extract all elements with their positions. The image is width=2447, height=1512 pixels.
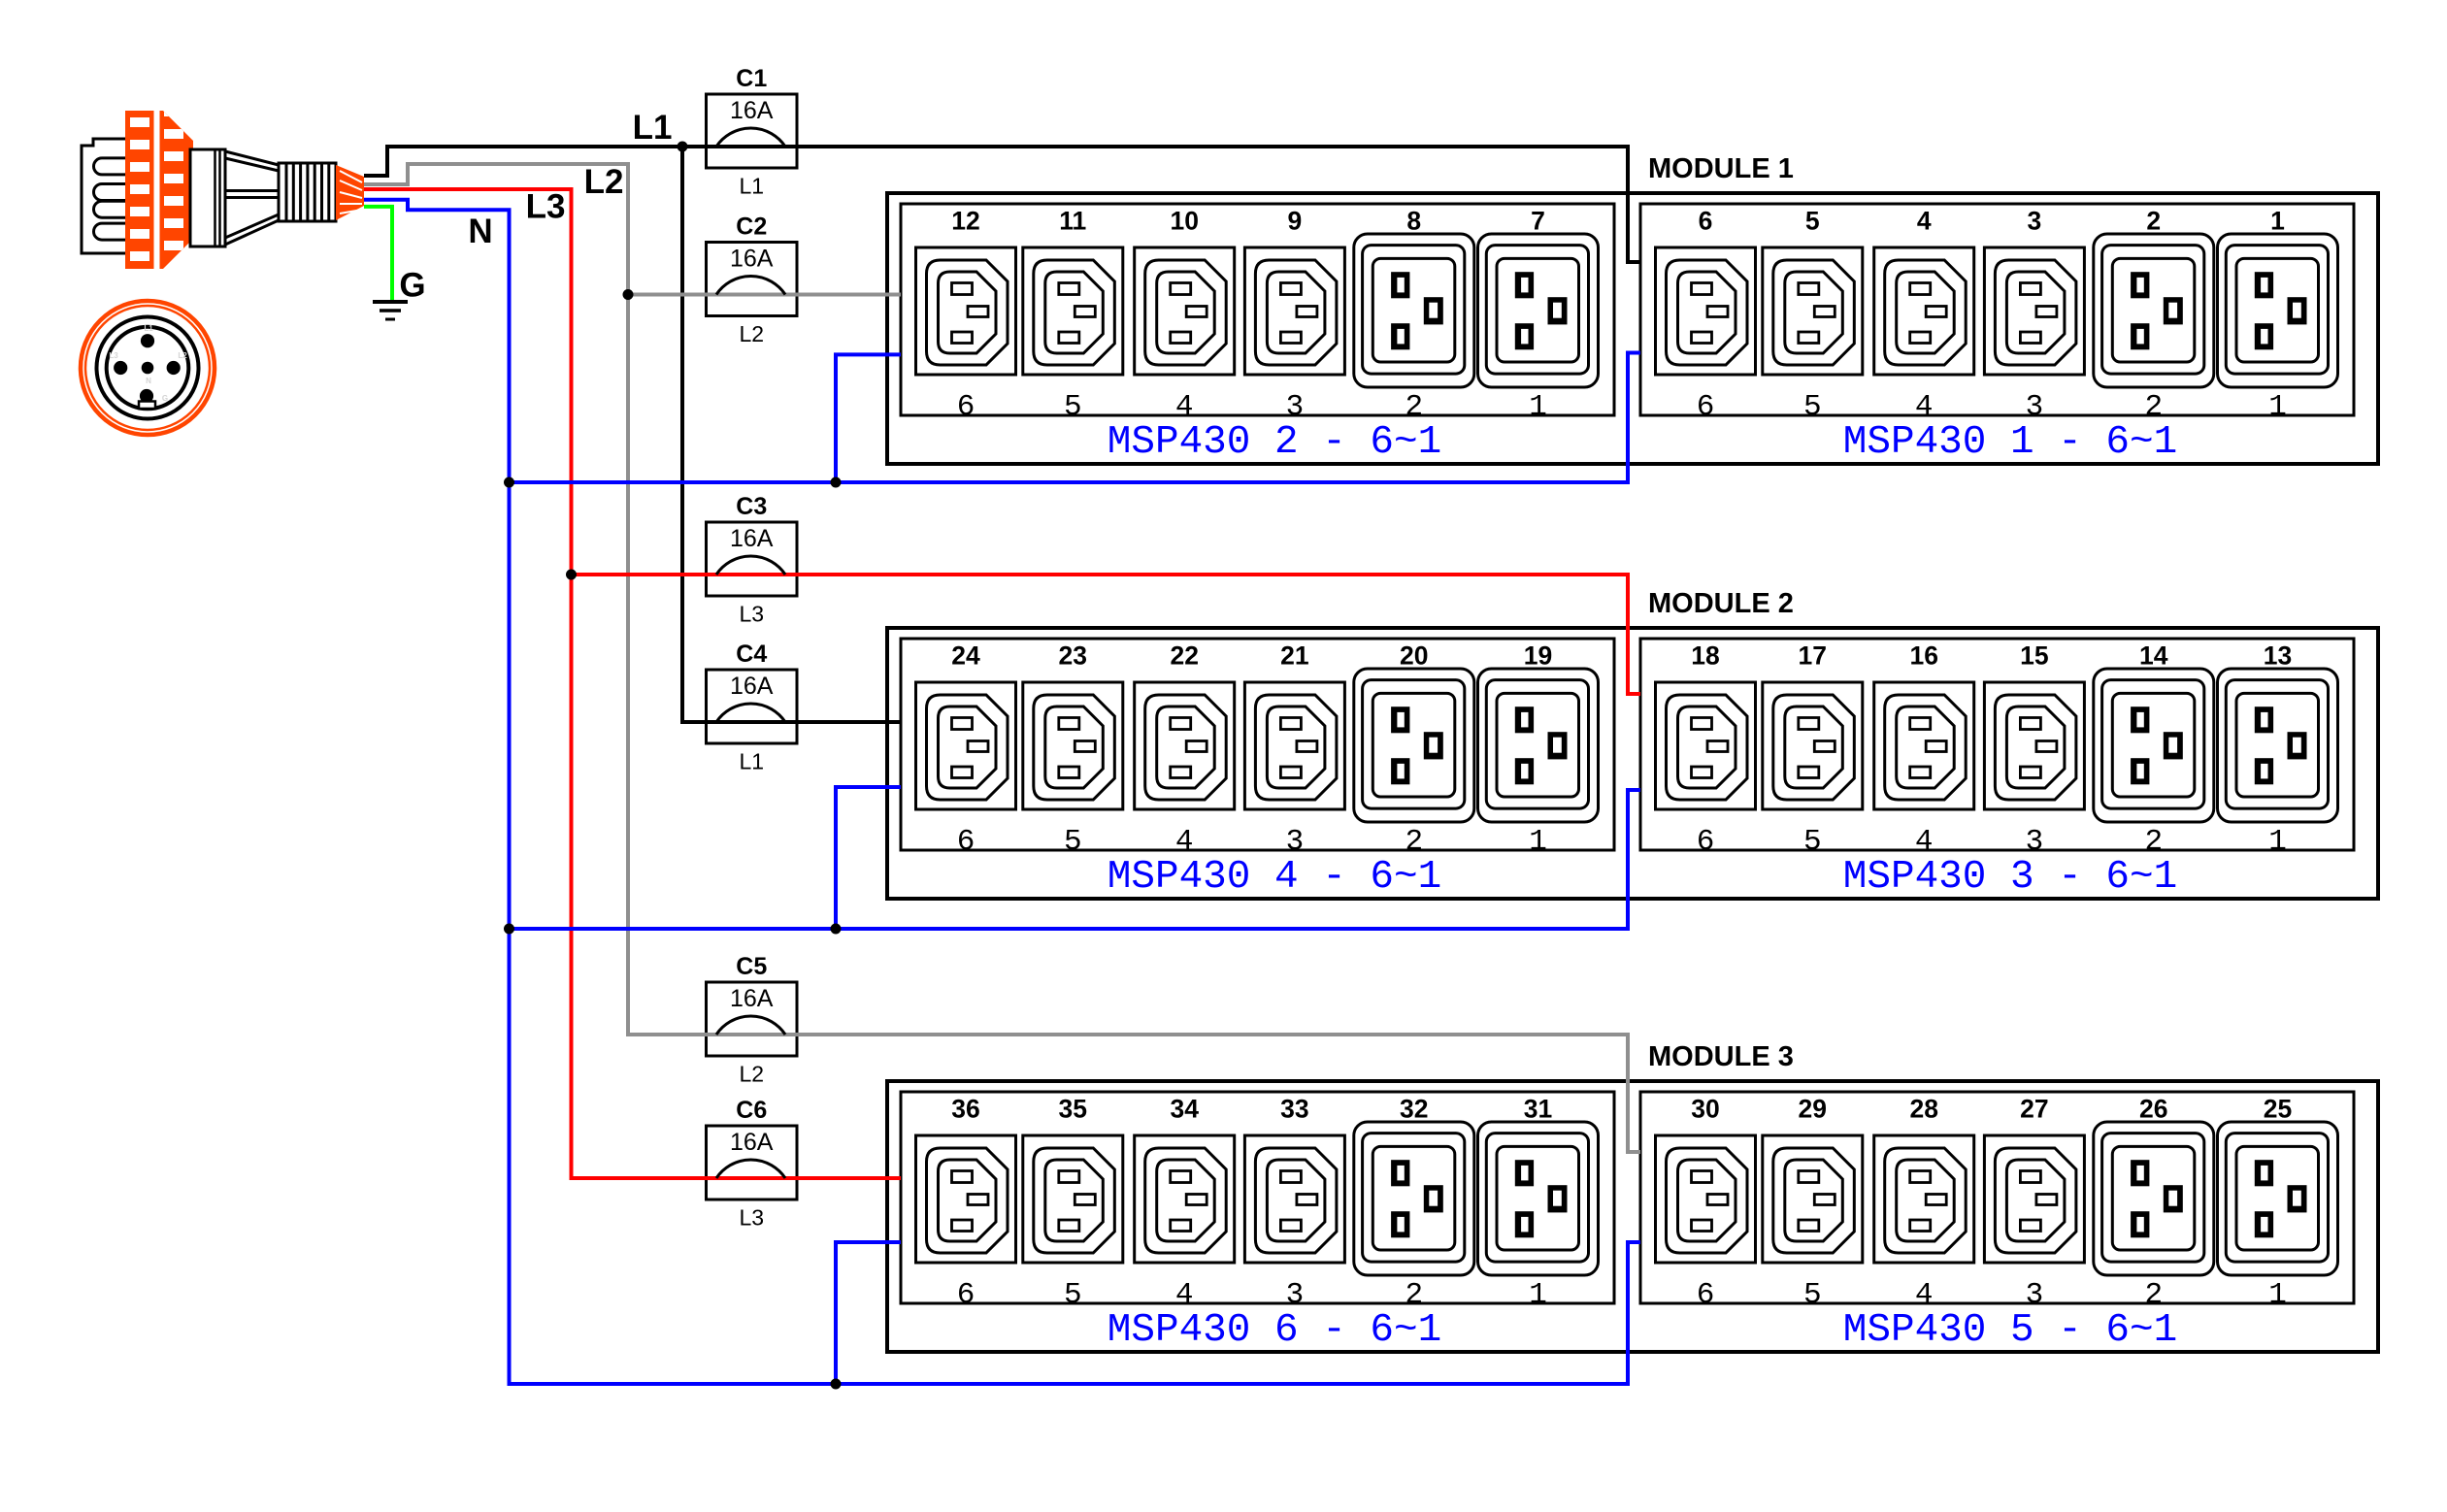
svg-text:N: N bbox=[146, 377, 151, 385]
svg-text:L1: L1 bbox=[739, 174, 764, 199]
svg-text:33: 33 bbox=[1280, 1095, 1308, 1124]
svg-text:L3: L3 bbox=[109, 351, 118, 360]
svg-text:N: N bbox=[468, 213, 492, 250]
svg-text:4: 4 bbox=[1915, 825, 1934, 859]
svg-text:4: 4 bbox=[1175, 1278, 1194, 1312]
svg-text:17: 17 bbox=[1799, 641, 1827, 671]
svg-text:C3: C3 bbox=[736, 493, 767, 520]
svg-text:MSP430 4 - 6~1: MSP430 4 - 6~1 bbox=[1108, 855, 1441, 900]
svg-text:3: 3 bbox=[2026, 825, 2044, 859]
svg-text:5: 5 bbox=[1803, 825, 1822, 859]
svg-text:MSP430 6 - 6~1: MSP430 6 - 6~1 bbox=[1108, 1308, 1441, 1353]
svg-text:7: 7 bbox=[1531, 207, 1545, 236]
svg-text:30: 30 bbox=[1691, 1095, 1719, 1124]
svg-text:MSP430 3 - 6~1: MSP430 3 - 6~1 bbox=[1843, 855, 2177, 900]
svg-text:2: 2 bbox=[2146, 207, 2161, 236]
svg-text:34: 34 bbox=[1170, 1095, 1199, 1124]
svg-text:6: 6 bbox=[957, 825, 975, 859]
svg-text:31: 31 bbox=[1524, 1095, 1552, 1124]
svg-text:2: 2 bbox=[1405, 1278, 1423, 1312]
svg-text:MODULE 1: MODULE 1 bbox=[1648, 153, 1794, 184]
svg-text:1: 1 bbox=[2268, 825, 2287, 859]
svg-text:4: 4 bbox=[1917, 207, 1932, 236]
svg-text:12: 12 bbox=[951, 207, 979, 236]
svg-text:MSP430 1 - 6~1: MSP430 1 - 6~1 bbox=[1843, 420, 2177, 465]
svg-text:4: 4 bbox=[1175, 825, 1194, 859]
svg-text:1: 1 bbox=[2270, 207, 2285, 236]
svg-text:8: 8 bbox=[1406, 207, 1421, 236]
svg-text:35: 35 bbox=[1059, 1095, 1087, 1124]
svg-text:C6: C6 bbox=[736, 1097, 767, 1124]
svg-text:36: 36 bbox=[951, 1095, 979, 1124]
svg-text:32: 32 bbox=[1400, 1095, 1428, 1124]
svg-text:9: 9 bbox=[1288, 207, 1303, 236]
svg-text:26: 26 bbox=[2139, 1095, 2167, 1124]
svg-text:C1: C1 bbox=[736, 65, 767, 92]
svg-text:L2: L2 bbox=[584, 163, 624, 201]
svg-text:1: 1 bbox=[2268, 390, 2287, 424]
svg-text:L1: L1 bbox=[144, 324, 153, 333]
svg-text:18: 18 bbox=[1691, 641, 1719, 671]
svg-text:6: 6 bbox=[1699, 207, 1713, 236]
svg-text:16A: 16A bbox=[730, 246, 774, 273]
svg-text:L1: L1 bbox=[739, 749, 764, 774]
svg-text:L2: L2 bbox=[739, 1062, 764, 1087]
svg-text:L2: L2 bbox=[178, 351, 187, 360]
svg-text:28: 28 bbox=[1909, 1095, 1937, 1124]
svg-text:5: 5 bbox=[1803, 1278, 1822, 1312]
svg-text:27: 27 bbox=[2020, 1095, 2048, 1124]
svg-text:16A: 16A bbox=[730, 1129, 774, 1156]
svg-text:29: 29 bbox=[1799, 1095, 1827, 1124]
svg-text:MODULE 3: MODULE 3 bbox=[1648, 1041, 1794, 1072]
svg-text:2: 2 bbox=[1405, 390, 1423, 424]
svg-text:1: 1 bbox=[1529, 825, 1547, 859]
svg-text:4: 4 bbox=[1915, 390, 1934, 424]
svg-text:3: 3 bbox=[1286, 390, 1305, 424]
svg-text:6: 6 bbox=[957, 390, 975, 424]
svg-text:1: 1 bbox=[2268, 1278, 2287, 1312]
svg-text:5: 5 bbox=[1803, 390, 1822, 424]
svg-text:4: 4 bbox=[1175, 390, 1194, 424]
svg-text:C5: C5 bbox=[736, 953, 767, 980]
svg-text:L1: L1 bbox=[633, 109, 673, 147]
svg-text:6: 6 bbox=[1697, 1278, 1715, 1312]
svg-text:3: 3 bbox=[2026, 390, 2044, 424]
svg-text:3: 3 bbox=[1286, 1278, 1305, 1312]
svg-text:20: 20 bbox=[1400, 641, 1428, 671]
svg-text:L3: L3 bbox=[526, 188, 566, 226]
svg-text:6: 6 bbox=[957, 1278, 975, 1312]
svg-text:1: 1 bbox=[1529, 390, 1547, 424]
svg-text:5: 5 bbox=[1064, 1278, 1082, 1312]
svg-text:2: 2 bbox=[2144, 390, 2163, 424]
svg-text:MSP430 2 - 6~1: MSP430 2 - 6~1 bbox=[1108, 420, 1441, 465]
svg-text:16A: 16A bbox=[730, 525, 774, 552]
svg-text:L2: L2 bbox=[739, 321, 764, 346]
svg-text:16A: 16A bbox=[730, 673, 774, 700]
svg-text:13: 13 bbox=[2264, 641, 2292, 671]
svg-text:5: 5 bbox=[1064, 390, 1082, 424]
svg-text:2: 2 bbox=[2144, 825, 2163, 859]
svg-text:L3: L3 bbox=[739, 1205, 764, 1231]
svg-text:22: 22 bbox=[1170, 641, 1198, 671]
svg-text:C4: C4 bbox=[736, 641, 767, 668]
svg-text:1: 1 bbox=[1529, 1278, 1547, 1312]
svg-text:C2: C2 bbox=[736, 214, 767, 241]
svg-text:G: G bbox=[162, 394, 168, 403]
svg-text:4: 4 bbox=[1915, 1278, 1934, 1312]
svg-text:21: 21 bbox=[1280, 641, 1308, 671]
svg-text:MODULE 2: MODULE 2 bbox=[1648, 588, 1794, 619]
svg-text:5: 5 bbox=[1805, 207, 1820, 236]
svg-text:G: G bbox=[399, 267, 425, 305]
svg-text:16A: 16A bbox=[730, 97, 774, 124]
svg-text:16A: 16A bbox=[730, 985, 774, 1012]
svg-text:2: 2 bbox=[2144, 1278, 2163, 1312]
svg-text:3: 3 bbox=[1286, 825, 1305, 859]
svg-text:3: 3 bbox=[2028, 207, 2042, 236]
svg-text:11: 11 bbox=[1059, 207, 1086, 236]
svg-text:6: 6 bbox=[1697, 825, 1715, 859]
svg-text:25: 25 bbox=[2264, 1095, 2292, 1124]
svg-text:6: 6 bbox=[1697, 390, 1715, 424]
svg-text:L3: L3 bbox=[739, 602, 764, 627]
svg-text:3: 3 bbox=[2026, 1278, 2044, 1312]
svg-text:23: 23 bbox=[1059, 641, 1087, 671]
svg-text:16: 16 bbox=[1909, 641, 1937, 671]
svg-text:5: 5 bbox=[1064, 825, 1082, 859]
svg-text:2: 2 bbox=[1405, 825, 1423, 859]
svg-text:10: 10 bbox=[1170, 207, 1198, 236]
svg-text:19: 19 bbox=[1524, 641, 1552, 671]
svg-text:15: 15 bbox=[2020, 641, 2048, 671]
svg-text:MSP430 5 - 6~1: MSP430 5 - 6~1 bbox=[1843, 1308, 2177, 1353]
svg-text:14: 14 bbox=[2139, 641, 2168, 671]
svg-text:24: 24 bbox=[951, 641, 980, 671]
